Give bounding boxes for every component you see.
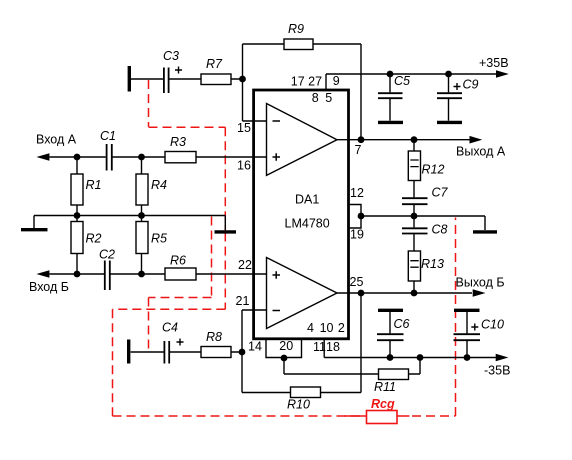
- svg-text:R12: R12: [422, 163, 445, 177]
- svg-text:C2: C2: [99, 248, 115, 262]
- svg-text:R11: R11: [374, 380, 396, 394]
- svg-text:C10: C10: [481, 318, 504, 332]
- svg-text:R2: R2: [86, 232, 102, 246]
- svg-text:5: 5: [325, 91, 332, 105]
- svg-text:20: 20: [279, 339, 293, 353]
- svg-text:Выход Б: Выход Б: [456, 276, 505, 290]
- svg-text:25: 25: [350, 275, 364, 289]
- svg-text:C6: C6: [394, 317, 410, 331]
- svg-text:-35В: -35В: [484, 364, 510, 378]
- svg-text:R6: R6: [170, 254, 186, 268]
- svg-text:18: 18: [326, 340, 340, 354]
- svg-text:C4: C4: [162, 321, 178, 335]
- svg-text:12: 12: [350, 186, 364, 200]
- svg-text:17 27: 17 27: [291, 75, 322, 89]
- svg-text:19: 19: [350, 228, 364, 242]
- svg-text:R5: R5: [151, 232, 167, 246]
- svg-text:10: 10: [320, 321, 334, 335]
- svg-text:7: 7: [355, 143, 362, 157]
- svg-text:R8: R8: [206, 330, 222, 344]
- svg-text:Rcg: Rcg: [371, 397, 395, 411]
- svg-text:22: 22: [238, 258, 252, 272]
- svg-text:R9: R9: [288, 22, 304, 36]
- svg-text:C5: C5: [394, 74, 410, 88]
- svg-text:C9: C9: [463, 78, 479, 92]
- svg-text:DA1: DA1: [295, 193, 319, 207]
- svg-text:2: 2: [338, 321, 345, 335]
- svg-text:C8: C8: [432, 223, 448, 237]
- svg-text:15: 15: [237, 121, 251, 135]
- svg-text:R4: R4: [151, 178, 167, 192]
- svg-text:LM4780: LM4780: [285, 217, 330, 231]
- svg-text:R1: R1: [86, 178, 102, 192]
- svg-text:16: 16: [237, 159, 251, 173]
- svg-text:8: 8: [312, 91, 319, 105]
- svg-text:+35В: +35В: [479, 56, 509, 70]
- svg-text:C3: C3: [163, 49, 179, 63]
- svg-text:R13: R13: [421, 257, 444, 271]
- svg-text:Выход А: Выход А: [456, 145, 506, 159]
- svg-text:4: 4: [307, 321, 314, 335]
- svg-text:11: 11: [313, 340, 326, 354]
- svg-text:R3: R3: [170, 135, 186, 149]
- svg-text:Вход А: Вход А: [36, 133, 77, 147]
- svg-text:C1: C1: [100, 129, 116, 143]
- svg-text:C7: C7: [432, 186, 449, 200]
- svg-text:R7: R7: [206, 57, 223, 71]
- svg-text:Вход Б: Вход Б: [29, 280, 69, 294]
- svg-text:21: 21: [236, 294, 250, 308]
- svg-text:R10: R10: [287, 398, 310, 412]
- svg-text:14: 14: [248, 340, 262, 354]
- svg-text:9: 9: [333, 74, 340, 88]
